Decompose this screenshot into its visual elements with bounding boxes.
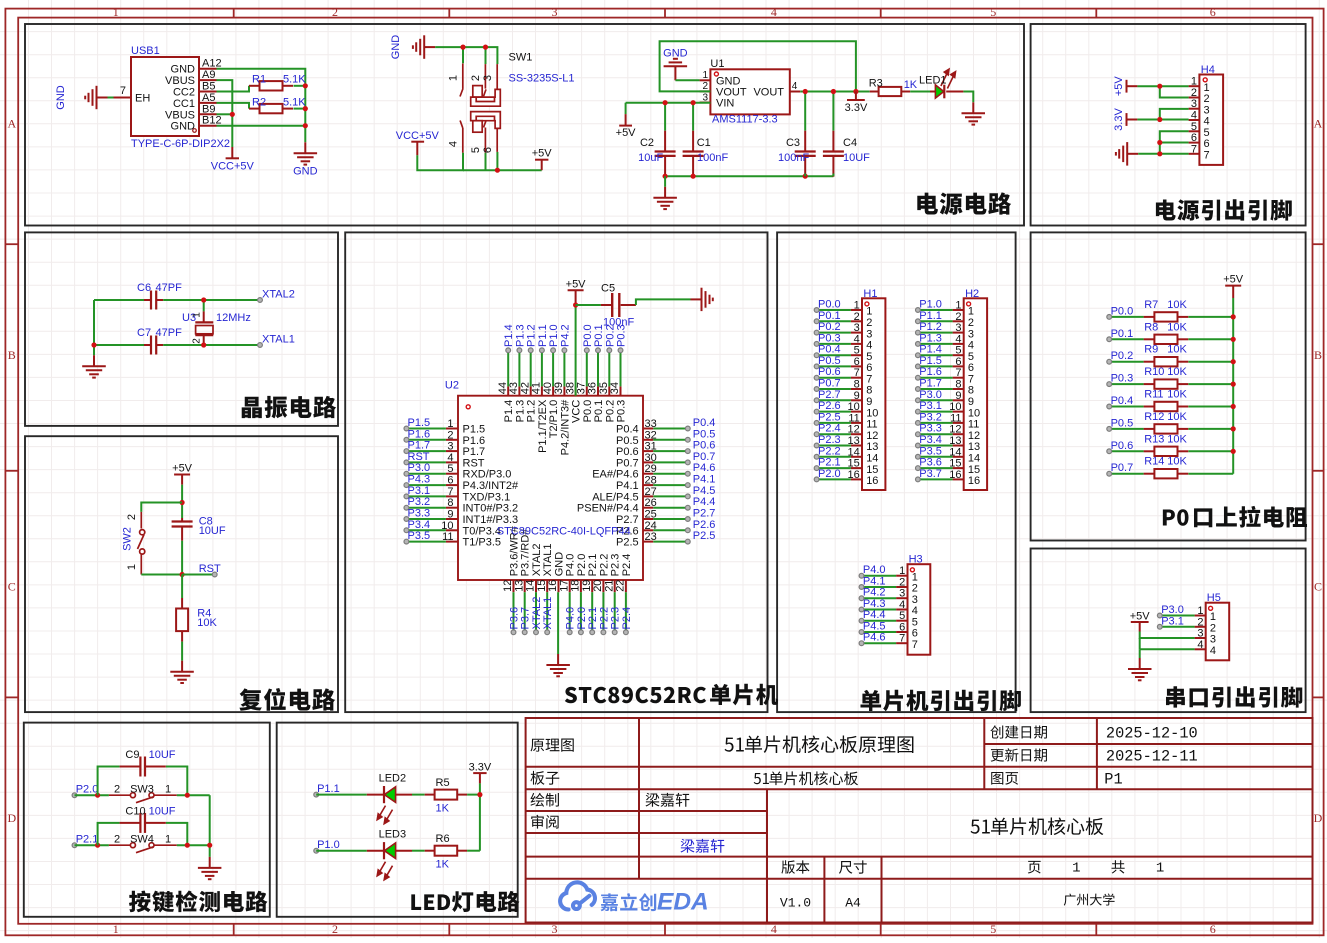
svg-text:B: B xyxy=(8,348,16,362)
power 3.3V net flag xyxy=(845,92,868,114)
wire R9 to +5V rail xyxy=(1188,361,1233,363)
svg-text:P2.6: P2.6 xyxy=(693,519,716,531)
wire P3.3 to U2 pin 9 xyxy=(406,518,446,520)
wire P1.5 to H2 pin 6 xyxy=(918,365,953,367)
svg-text:P1.5: P1.5 xyxy=(408,417,431,429)
wire capacitor ground rail xyxy=(665,175,833,177)
node P2.5 at H1 xyxy=(814,411,840,425)
svg-text:P4.4: P4.4 xyxy=(693,496,716,508)
resistor R11 10K xyxy=(1144,389,1189,412)
svg-text:4: 4 xyxy=(968,340,974,352)
svg-text:P4.5: P4.5 xyxy=(693,485,716,497)
wire P2.6 to U2 pin 24 xyxy=(653,529,688,531)
junction key block at SW3 xyxy=(185,793,190,798)
svg-text:INT1#/P3.3: INT1#/P3.3 xyxy=(463,514,519,526)
resistor R14 10K xyxy=(1144,456,1189,479)
svg-text:7: 7 xyxy=(1204,150,1210,162)
svg-text:P1: P1 xyxy=(1104,771,1122,789)
svg-text:P2.7: P2.7 xyxy=(693,508,716,520)
node P0.1 at H1 xyxy=(814,310,840,324)
wire +5V to H4 pin1 xyxy=(1137,85,1188,87)
wire P1.0 to LED3 xyxy=(316,850,367,852)
svg-text:P2.0: P2.0 xyxy=(576,554,588,577)
svg-text:6: 6 xyxy=(1210,922,1216,936)
wire P1.2 to H2 pin 3 xyxy=(918,332,953,334)
svg-text:P2.4: P2.4 xyxy=(818,423,841,435)
svg-text:10: 10 xyxy=(968,407,980,419)
svg-text:P1.7: P1.7 xyxy=(408,440,431,452)
svg-text:P0.7: P0.7 xyxy=(693,451,716,463)
svg-text:15: 15 xyxy=(968,464,980,476)
svg-text:P1.0: P1.0 xyxy=(317,839,340,851)
wire 3.3V rail LED block xyxy=(479,783,481,850)
svg-text:T1/P3.5: T1/P3.5 xyxy=(463,537,502,549)
led LED3 xyxy=(367,829,412,880)
node P0.6 right xyxy=(685,440,715,454)
svg-text:1: 1 xyxy=(113,5,119,19)
ground GND in crystal block xyxy=(82,355,106,377)
svg-text:1K: 1K xyxy=(436,859,450,871)
wire P1.3 to U2 top pin 43 xyxy=(518,350,520,386)
wire SW1 pin1 drop xyxy=(462,47,464,63)
node P1.0 top xyxy=(548,324,560,352)
svg-text:P4.2: P4.2 xyxy=(559,324,571,347)
wire P0.2 to R9 xyxy=(1109,361,1143,363)
node P0.1 at pull-up xyxy=(1107,328,1133,342)
node P3.0 at H5 xyxy=(1157,604,1183,618)
svg-text:P4.6: P4.6 xyxy=(863,632,886,644)
svg-text:4: 4 xyxy=(1210,645,1216,657)
node P2.2 bottom xyxy=(598,607,610,635)
svg-text:1K: 1K xyxy=(904,79,918,91)
svg-text:P2.2: P2.2 xyxy=(598,554,610,577)
wire P4.4 to U2 pin 26 xyxy=(653,507,688,509)
node P2.6 at H1 xyxy=(814,400,840,414)
junction reset top node xyxy=(180,500,185,505)
wire EH pin7 to GND xyxy=(108,97,114,99)
junction crystal top xyxy=(201,297,206,302)
svg-text:10K: 10K xyxy=(1167,299,1187,311)
svg-text:VOUT: VOUT xyxy=(753,87,784,99)
wire P4.3 to U2 pin 6 xyxy=(406,484,446,486)
svg-text:R6: R6 xyxy=(436,833,450,845)
svg-text:P0.5: P0.5 xyxy=(1111,417,1134,429)
svg-text:12MHz: 12MHz xyxy=(216,312,251,324)
svg-text:3: 3 xyxy=(912,594,918,606)
svg-text:P3.6: P3.6 xyxy=(509,607,521,630)
svg-text:C7: C7 xyxy=(137,327,151,339)
title block table xyxy=(526,718,1313,923)
wire P3.1 to H2 pin 10 xyxy=(918,411,953,413)
junction cap rail at C3 xyxy=(803,174,808,179)
wire P0.1 to H1 pin 2 xyxy=(817,320,851,322)
svg-text:XTAL2: XTAL2 xyxy=(262,289,295,301)
wire P3.1 to H5 pin2 xyxy=(1160,626,1195,628)
node P4.1 at H3 xyxy=(859,576,885,590)
svg-text:4: 4 xyxy=(1197,639,1203,651)
node P3.3 left xyxy=(404,508,430,522)
node P3.0 at H2 xyxy=(916,389,942,403)
wire U2 GND pin16 down xyxy=(557,592,559,654)
svg-text:P2.4: P2.4 xyxy=(621,607,633,630)
svg-text:XTAL1: XTAL1 xyxy=(542,597,554,630)
svg-text:P2.7: P2.7 xyxy=(818,389,841,401)
junction rail at R8 xyxy=(1231,337,1236,342)
svg-text:B: B xyxy=(1314,348,1322,362)
svg-text:2: 2 xyxy=(470,75,482,81)
svg-text:P0.5: P0.5 xyxy=(818,355,841,367)
svg-text:P0.6: P0.6 xyxy=(616,446,639,458)
svg-text:4: 4 xyxy=(1191,110,1197,122)
svg-text:R14: R14 xyxy=(1144,456,1164,468)
svg-text:T2/P1.0: T2/P1.0 xyxy=(548,400,560,439)
svg-text:35: 35 xyxy=(598,382,610,394)
svg-text:P1.1/T2EX: P1.1/T2EX xyxy=(537,399,549,453)
svg-text:V1.0: V1.0 xyxy=(780,896,811,911)
junction SW1 pin2 xyxy=(483,45,488,50)
svg-text:D: D xyxy=(1314,811,1323,825)
node XTAL1 xyxy=(258,334,295,348)
svg-text:11: 11 xyxy=(866,419,877,431)
junction 3.3V rail at R5 xyxy=(477,792,482,797)
svg-text:15: 15 xyxy=(866,464,878,476)
svg-text:P0.2: P0.2 xyxy=(604,400,616,423)
svg-text:P3.3: P3.3 xyxy=(408,508,431,520)
wire LED1 cathode to ground xyxy=(963,92,973,103)
node P1.4 at H2 xyxy=(916,344,942,358)
led LED1 xyxy=(919,69,963,98)
svg-text:5: 5 xyxy=(1204,127,1210,139)
svg-text:P1.3: P1.3 xyxy=(514,324,526,347)
svg-text:GND: GND xyxy=(390,35,402,60)
header H1 xyxy=(848,288,886,490)
svg-text:3.3V: 3.3V xyxy=(845,102,868,114)
svg-text:10K: 10K xyxy=(1167,366,1187,378)
node P0.2 at H1 xyxy=(814,321,840,335)
svg-text:3: 3 xyxy=(1204,104,1210,116)
wire P2.2 to U2 bottom pin 20 xyxy=(602,592,604,632)
svg-text:AMS1117-3.3: AMS1117-3.3 xyxy=(712,113,778,125)
svg-text:P2.3: P2.3 xyxy=(610,554,622,577)
ic U2 STC89C52RC-40I-LQFP44 xyxy=(441,380,657,593)
svg-text:4: 4 xyxy=(448,141,460,147)
wire P0.2 to H1 pin 3 xyxy=(817,332,851,334)
header H2 xyxy=(949,288,987,490)
svg-text:6: 6 xyxy=(447,475,453,487)
wire P3.0 to U2 pin 5 xyxy=(406,473,446,475)
junction P2.0 at cap branch xyxy=(95,793,100,798)
title block texts xyxy=(530,725,1197,911)
resistor R8 10K xyxy=(1144,321,1189,344)
svg-text:P0.6: P0.6 xyxy=(818,366,841,378)
wire R8 to +5V rail xyxy=(1188,338,1233,340)
svg-text:GND: GND xyxy=(171,64,196,76)
switch SW3 xyxy=(109,784,177,803)
svg-text:T0/P3.4: T0/P3.4 xyxy=(463,525,502,537)
svg-text:10K: 10K xyxy=(1167,456,1187,468)
svg-text:P3.7: P3.7 xyxy=(919,468,942,480)
svg-text:+5V: +5V xyxy=(1113,76,1125,97)
svg-text:5: 5 xyxy=(854,345,860,357)
junction +5V H4 xyxy=(1157,84,1162,89)
svg-text:P0.2: P0.2 xyxy=(818,321,841,333)
wire R3 to LED1 xyxy=(910,91,930,93)
svg-text:1: 1 xyxy=(192,312,203,318)
svg-text:R13: R13 xyxy=(1144,433,1164,445)
node P4.4 right xyxy=(685,496,715,510)
wire P0.5 to U2 pin 32 xyxy=(653,439,688,441)
svg-text:PSEN#/P4.4: PSEN#/P4.4 xyxy=(577,503,639,515)
svg-text:P1.1: P1.1 xyxy=(919,310,942,322)
junction key block at SW4 xyxy=(185,843,190,848)
svg-text:VIN: VIN xyxy=(716,98,734,110)
wire P0.0 to U2 top pin 37 xyxy=(586,350,588,386)
svg-text:1: 1 xyxy=(1210,611,1216,623)
wire P3.6 to U2 bottom pin 12 xyxy=(513,592,515,632)
svg-text:44: 44 xyxy=(497,382,509,394)
svg-text:13: 13 xyxy=(513,580,525,592)
wire P3.0 to H2 pin 9 xyxy=(918,399,953,401)
svg-text:P4.5: P4.5 xyxy=(863,621,886,633)
svg-text:2: 2 xyxy=(1191,87,1197,99)
title 晶振电路 xyxy=(242,396,336,419)
wire P1.6 to H2 pin 7 xyxy=(918,377,953,379)
junction GND rail at R1 xyxy=(303,83,308,88)
svg-text:2: 2 xyxy=(912,583,918,595)
junction +5V at SW1 pin6 xyxy=(495,168,500,173)
svg-text:P4.2/INT3#: P4.2/INT3# xyxy=(559,399,571,456)
svg-text:2: 2 xyxy=(1197,616,1203,628)
svg-text:P3.3: P3.3 xyxy=(919,423,942,435)
svg-text:6: 6 xyxy=(482,147,494,153)
node P1.0 LED block xyxy=(314,839,340,853)
svg-text:+5V: +5V xyxy=(616,127,637,139)
power +5V at H4 xyxy=(1113,76,1137,97)
node P1.5 left xyxy=(404,417,430,431)
wire XTAL2 to U2 bottom pin 14 xyxy=(535,592,537,632)
svg-text:4: 4 xyxy=(447,452,453,464)
svg-text:P3.4: P3.4 xyxy=(919,434,942,446)
svg-text:P2.1: P2.1 xyxy=(76,834,99,846)
node P2.4 at H1 xyxy=(814,423,840,437)
wire P4.2 to H3 pin 3 xyxy=(862,597,897,599)
node P4.6 right xyxy=(685,462,715,476)
resistor R5 1K xyxy=(425,777,467,814)
svg-text:4: 4 xyxy=(771,5,777,19)
svg-text:B5: B5 xyxy=(202,81,215,93)
svg-text:4: 4 xyxy=(912,605,918,617)
wire RST to pad xyxy=(182,574,215,576)
svg-text:5: 5 xyxy=(955,345,961,357)
svg-text:P2.0: P2.0 xyxy=(576,607,588,630)
svg-text:VBUS: VBUS xyxy=(165,109,195,121)
svg-text:6: 6 xyxy=(1210,5,1216,19)
svg-text:EDA: EDA xyxy=(657,889,709,916)
svg-text:LED2: LED2 xyxy=(379,773,407,785)
svg-text:34: 34 xyxy=(609,382,621,394)
svg-text:1: 1 xyxy=(113,922,119,936)
node P4.2 top xyxy=(559,324,571,352)
junction rail at R7 xyxy=(1231,314,1236,319)
svg-text:RST: RST xyxy=(463,457,485,469)
node XTAL2 xyxy=(258,289,295,303)
wire R1 to GND rail xyxy=(294,85,306,87)
node RST xyxy=(199,563,221,577)
crystal U3 12MHz xyxy=(182,300,251,345)
junction GND rail at R2 xyxy=(303,106,308,111)
svg-text:VCC+5V: VCC+5V xyxy=(211,161,255,173)
svg-text:6: 6 xyxy=(1204,138,1210,150)
power +5V left of U1 xyxy=(616,103,637,139)
svg-text:10UF: 10UF xyxy=(199,525,226,537)
svg-text:ALE/P4.5: ALE/P4.5 xyxy=(592,491,638,503)
node P0.2 top xyxy=(604,324,616,352)
switch SW2 reset button xyxy=(122,512,145,575)
wire R13 to +5V rail xyxy=(1188,450,1233,452)
svg-text:1: 1 xyxy=(126,564,138,570)
svg-text:1: 1 xyxy=(1197,605,1203,617)
node P2.4 bottom xyxy=(621,607,633,635)
svg-text:1: 1 xyxy=(955,300,961,312)
svg-text:6: 6 xyxy=(899,622,905,634)
svg-text:1: 1 xyxy=(968,306,974,318)
svg-text:GND: GND xyxy=(171,121,196,133)
svg-text:P2.0: P2.0 xyxy=(818,468,841,480)
wire XTAL2 row xyxy=(94,299,144,301)
wire P1.1 to LED2 xyxy=(316,794,367,796)
node P2.0 bottom xyxy=(576,607,588,635)
svg-text:P0.5: P0.5 xyxy=(616,435,639,447)
svg-text:14: 14 xyxy=(968,453,980,465)
svg-text:P3.1: P3.1 xyxy=(919,400,942,412)
svg-text:C6: C6 xyxy=(137,282,151,294)
node P4.6 at H3 xyxy=(859,632,885,646)
title STC89C52RC单片机 xyxy=(565,684,778,706)
ground GND right of C5 xyxy=(691,288,713,311)
node P0.3 at H1 xyxy=(814,332,840,346)
node P3.1 left xyxy=(404,485,430,499)
power VCC+5V at SW1 xyxy=(396,130,440,155)
svg-text:P0.4: P0.4 xyxy=(693,417,716,429)
svg-text:P1.4: P1.4 xyxy=(503,400,515,423)
svg-text:7: 7 xyxy=(899,633,905,645)
svg-text:5: 5 xyxy=(899,610,905,622)
svg-text:2: 2 xyxy=(1210,623,1216,635)
svg-text:10K: 10K xyxy=(1167,389,1187,401)
wire P3.5 to H2 pin 14 xyxy=(918,456,953,458)
svg-text:P0.4: P0.4 xyxy=(818,344,841,356)
svg-text:1: 1 xyxy=(1156,861,1164,877)
node P0.0 top xyxy=(582,324,594,352)
svg-text:5.1K: 5.1K xyxy=(283,74,306,86)
svg-text:LED3: LED3 xyxy=(379,829,407,841)
svg-text:3: 3 xyxy=(552,922,558,936)
title 串口引出引脚 xyxy=(1166,686,1302,707)
power +5V reset block xyxy=(172,462,193,484)
svg-text:2: 2 xyxy=(968,317,974,329)
svg-text:P3.2: P3.2 xyxy=(919,411,942,423)
wire R11 to +5V rail xyxy=(1188,406,1233,408)
power +5V above U2 xyxy=(566,278,587,305)
wire key gnd rail xyxy=(209,795,211,857)
node XTAL1 bottom xyxy=(542,597,554,635)
wire left rail to ground xyxy=(93,300,95,355)
svg-text:C: C xyxy=(8,580,16,594)
wire C5 to ground xyxy=(636,299,691,305)
wire P1.4 to H2 pin 5 xyxy=(918,354,953,356)
wire R7 to +5V rail xyxy=(1188,316,1233,318)
wire P4.2 to U2 top pin 39 xyxy=(563,350,565,386)
svg-text:R3: R3 xyxy=(869,77,883,89)
capacitor C5 100nF xyxy=(576,283,636,329)
node P0.4 at H1 xyxy=(814,344,840,358)
wire SW1 pin6 to +5V rail xyxy=(496,152,498,170)
svg-text:3: 3 xyxy=(1197,628,1203,640)
node XTAL2 bottom xyxy=(531,597,543,635)
svg-text:A4: A4 xyxy=(845,896,861,911)
wire LED3 to R6 xyxy=(412,850,425,852)
svg-text:7: 7 xyxy=(912,639,918,651)
svg-text:P4.1: P4.1 xyxy=(863,576,886,588)
svg-text:4: 4 xyxy=(899,599,905,611)
svg-text:P2.5: P2.5 xyxy=(818,411,841,423)
svg-text:H3: H3 xyxy=(909,554,923,566)
svg-text:4: 4 xyxy=(866,340,872,352)
led LED2 xyxy=(367,773,412,824)
svg-text:R9: R9 xyxy=(1144,344,1158,356)
svg-text:6: 6 xyxy=(866,362,872,374)
junction cap rail at C1 xyxy=(691,174,696,179)
junction key rail xyxy=(207,843,212,848)
svg-text:11: 11 xyxy=(968,419,979,431)
capacitor C7 47PF xyxy=(137,327,182,355)
wire P1.6 to U2 pin 2 xyxy=(406,439,446,441)
junction rail at R11 xyxy=(1231,404,1236,409)
node P2.0 at H1 xyxy=(814,468,840,482)
svg-text:3: 3 xyxy=(866,328,872,340)
node P1.1 LED block xyxy=(314,783,340,797)
wire P2.1 to H1 pin 15 xyxy=(817,467,851,469)
svg-text:+5V: +5V xyxy=(1130,611,1151,623)
wire P2.4 to U2 bottom pin 22 xyxy=(625,592,627,632)
node P2.7 at H1 xyxy=(814,389,840,403)
node P1.6 left xyxy=(404,428,430,442)
svg-text:37: 37 xyxy=(576,382,588,394)
svg-text:19: 19 xyxy=(581,580,593,592)
svg-text:P3.5: P3.5 xyxy=(408,530,431,542)
title 复位电路 xyxy=(239,688,335,711)
svg-text:P1.5: P1.5 xyxy=(919,355,942,367)
svg-text:H1: H1 xyxy=(863,288,877,300)
wire P0.0 to R7 xyxy=(1109,316,1143,318)
wire XTAL1 to U2 bottom pin 15 xyxy=(546,592,548,632)
svg-text:C9: C9 xyxy=(125,749,139,761)
node P3.0 left xyxy=(404,462,430,476)
svg-text:H4: H4 xyxy=(1201,64,1215,76)
wire P0.4 to H1 pin 5 xyxy=(817,354,851,356)
svg-text:8: 8 xyxy=(955,379,961,391)
svg-text:2: 2 xyxy=(1204,93,1210,105)
wire P3.1 to U2 pin 7 xyxy=(406,495,446,497)
node P1.2 at H2 xyxy=(916,321,942,335)
svg-text:P0.3: P0.3 xyxy=(616,400,628,423)
svg-text:A5: A5 xyxy=(202,92,215,104)
node P0.5 right xyxy=(685,428,715,442)
svg-text:8: 8 xyxy=(968,385,974,397)
svg-text:P4.0: P4.0 xyxy=(565,554,577,577)
node P1.1 at H2 xyxy=(916,310,942,324)
node P3.7 at H2 xyxy=(916,468,942,482)
